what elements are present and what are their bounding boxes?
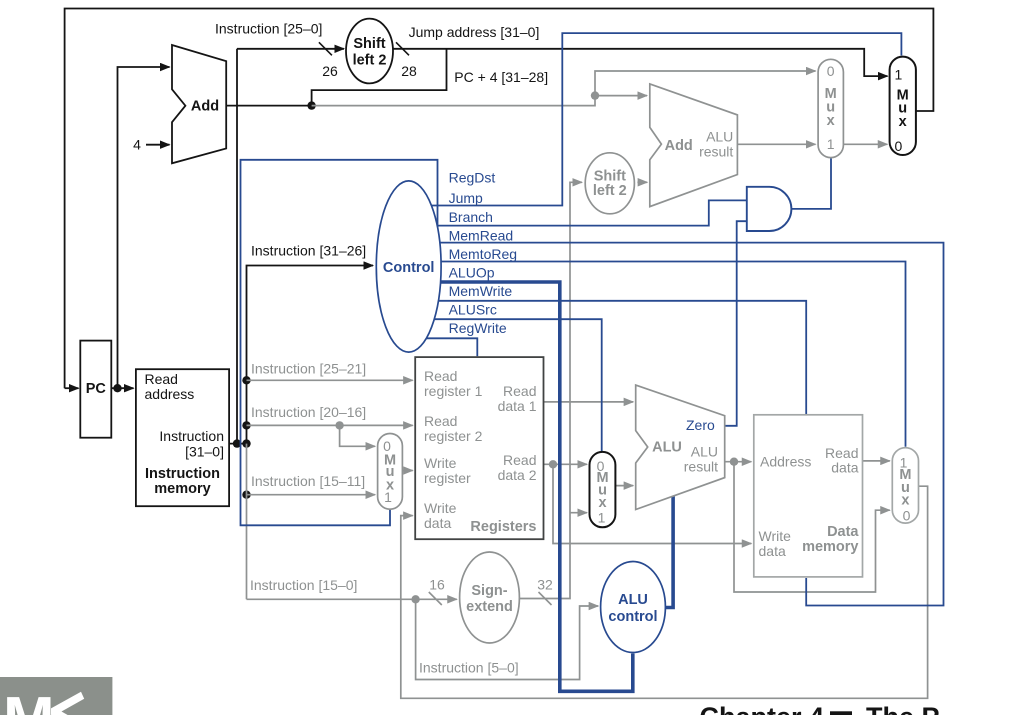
svg-text:Read: Read [424,413,457,429]
wire: Instruction [5-0] to ALU control [416,599,599,679]
svg-text:control: control [608,609,657,625]
wire: ALUSrc signal down to ALUSrc mux select [408,319,602,451]
svg-text:0: 0 [383,438,391,454]
ALU main trapezoid [636,385,725,509]
svg-text:0: 0 [903,508,911,524]
svg-text:M: M [3,685,55,715]
junction: PC+4 branch node [591,91,599,99]
wire: Instruction [15-11] into RegDst mux input 1 [247,494,376,496]
wire: RegDst mux output to Write register [402,470,412,472]
svg-text:16: 16 [429,577,445,593]
svg-text:left 2: left 2 [353,53,387,69]
wire: jump mux output feedback loop to PC input [65,9,934,389]
junction: instruction [20-16] tap [242,421,250,429]
caption em-dash visible sliver [830,711,852,715]
svg-text:Instruction [15–0]: Instruction [15–0] [250,577,357,593]
wire: Instruction [25-0] into Shift left 2 [237,48,344,50]
sign-extend oval [460,552,520,643]
control unit oval [376,181,441,352]
svg-text:0: 0 [827,63,835,79]
wire: data memory read data into memtoreg mux input 1 [863,460,890,462]
ALUSrc mux capsule [590,452,616,527]
svg-text:result: result [699,144,733,160]
wire: MemtoReg signal down to memtoreg mux select [408,262,906,447]
wire: PC value up to Add (PC+4) top input [118,67,170,388]
svg-text:Instruction [15–11]: Instruction [15–11] [251,473,365,489]
wire: Read data 2 branch to data memory write data [553,464,751,543]
slash: 32-bit width mark [539,592,552,605]
svg-text:Address: Address [760,454,811,470]
svg-text:data 1: data 1 [498,398,537,414]
svg-text:ALUOp: ALUOp [449,265,495,281]
adder Add (PC+4) [172,45,226,163]
svg-text:ALU: ALU [691,444,718,460]
slash: 28-bit width mark [396,42,409,55]
svg-text:Registers: Registers [470,519,536,535]
svg-text:1: 1 [827,136,835,152]
svg-text:1: 1 [384,489,392,505]
svg-text:data: data [759,543,786,559]
svg-text:Read: Read [503,383,536,399]
svg-text:Instruction [25–0]: Instruction [25–0] [215,21,322,37]
wire: RegWrite signal down to Registers write enable [408,338,477,356]
svg-text:MemtoReg: MemtoReg [449,246,517,262]
wire: Instruction [25-21] to Read register 1 [247,379,413,381]
svg-text:28: 28 [401,63,417,79]
wire: feedback arrow into PC [65,387,79,389]
svg-text:memory: memory [154,481,210,497]
slash: 26-bit width mark [319,42,332,55]
data memory box [754,415,863,577]
svg-text:RegWrite: RegWrite [449,320,507,336]
svg-text:Write: Write [759,528,792,544]
junction: ALU result node [730,458,738,466]
branch mux capsule [818,59,843,157]
svg-text:ALU: ALU [618,592,648,608]
junction: PC output node [113,384,121,392]
wire: Instruction [25-0] vertical from instruction bus [236,49,238,444]
svg-text:Shift: Shift [353,36,385,52]
svg-text:Data: Data [827,524,859,540]
wire: sign-extend branch to ALUSrc mux input 1 [570,512,587,514]
svg-text:Chapter 4 — The P: Chapter 4 — The P [700,702,940,715]
shift left 2 oval (branch) [585,153,634,214]
PC register box [80,341,111,438]
junction: PC+4 node [307,101,315,109]
svg-text:Instruction: Instruction [159,428,224,444]
registers box [415,357,543,539]
junction: instruction [15-11] tap [242,491,250,499]
svg-text:Write: Write [424,500,457,516]
svg-text:Write: Write [424,455,457,471]
wire: instruction memory output bus [229,443,246,445]
wire: Instruction [20-16] to Read register 2 [247,424,413,426]
svg-text:Instruction [20–16]: Instruction [20–16] [251,404,366,420]
wire: PC output to instruction memory read address [111,387,133,389]
svg-text:1: 1 [895,67,903,83]
svg-text:PC + 4 [31–28]: PC + 4 [31–28] [454,69,548,85]
wire: jump address [31-0] from shift left 2 to jump mux input 1 [393,49,888,76]
svg-text:data: data [831,460,858,476]
svg-text:Add: Add [191,99,219,115]
logo: MK publisher mark [0,677,112,715]
wire: ALU result to data memory address [725,461,752,463]
branch adder Add trapezoid [650,84,738,207]
wire: memtoreg mux output wrap-around to Registers write data [401,486,928,698]
svg-text:26: 26 [322,63,338,79]
shift left 2 oval (jump) [346,19,393,84]
svg-text:memory: memory [802,539,858,555]
wire: sign-extend output up to shift left 2 [519,182,582,598]
wire: Read data 1 into ALU top input [544,401,634,403]
svg-text:Zero: Zero [686,417,715,433]
wire: branch adder ALU result to branch mux input 1 [737,143,815,145]
wire: instruction field vertical (lower gray part) [246,444,248,600]
junction: instruction [25-21] tap [242,376,250,384]
junction: instruction bus node A [233,439,241,447]
wire: branch mux output to jump mux input 0 [843,143,887,145]
wire: ALU control output into ALU control port (thick) [663,497,673,608]
wire: Instruction [15-0] to sign-extend [247,598,457,600]
svg-text:MemWrite: MemWrite [449,283,513,299]
svg-text:Branch: Branch [449,209,493,225]
wire: MemWrite signal down to data memory write port [408,301,806,414]
svg-text:ALU: ALU [706,129,733,145]
svg-text:Sign-: Sign- [471,583,507,599]
svg-text:4: 4 [133,137,141,153]
svg-text:Read: Read [503,452,536,468]
svg-text:data 2: data 2 [498,467,537,483]
wire: MemRead signal wrap-around to data memory read port [408,243,944,606]
junction: instruction [15-0] node [411,595,419,603]
svg-text:ALU: ALU [652,440,682,456]
svg-text:register: register [424,470,471,486]
svg-text:Instruction [25–21]: Instruction [25–21] [251,361,366,377]
svg-text:MemRead: MemRead [449,228,514,244]
jump mux capsule [890,57,916,155]
svg-text:1: 1 [598,510,606,526]
slash: 16-bit width mark [429,592,442,605]
svg-text:result: result [684,459,718,475]
svg-text:address: address [145,386,195,402]
junction: instruction bus node B [242,439,250,447]
wire: Instruction [31-26] to Control input [247,266,374,444]
wire: PC+4 into branch adder top input [595,95,647,97]
wire: Instruction [20-16] branch into RegDst mux input 0 [340,425,376,446]
svg-text:32: 32 [537,577,553,593]
wire: constant 4 into Add bottom input [146,144,170,146]
svg-text:Jump: Jump [449,190,483,206]
wire: ALU result wrap-around to memtoreg mux input 0 [734,462,890,592]
svg-text:[31–0]: [31–0] [185,443,224,459]
svg-text:ALUSrc: ALUSrc [449,302,497,318]
wire: PC+4 [31-28] up to jump address bus [312,49,447,106]
svg-text:Read: Read [145,371,178,387]
junction: instruction [20-16] mux branch node [335,421,343,429]
svg-text:Read: Read [424,368,457,384]
RegDst mux capsule [378,434,403,510]
memtoreg mux capsule [892,448,918,523]
svg-text:x: x [827,113,835,129]
wire: Zero output from ALU to AND gate lower input [725,221,746,426]
svg-text:x: x [899,114,907,130]
svg-text:extend: extend [466,599,513,615]
svg-text:Instruction [31–26]: Instruction [31–26] [251,243,366,259]
wire: Read data 2 into ALUSrc mux input 0 [544,463,588,465]
svg-text:register 1: register 1 [424,383,483,399]
ALU control oval [601,562,666,653]
wire: Branch signal to AND gate top input [408,200,746,225]
wire: PC+4 gray bus to branch mux input 0 [312,71,816,106]
instruction memory box [136,369,229,506]
svg-text:Instruction [5–0]: Instruction [5–0] [419,660,519,676]
svg-text:0: 0 [895,138,903,154]
svg-text:Jump address [31–0]: Jump address [31–0] [409,24,540,40]
wire: RegDst signal wrap-around to RegDst mux select [241,160,438,526]
svg-text:Instruction: Instruction [145,466,220,482]
wire: AND gate output to branch mux select [787,159,832,209]
wire: Jump signal up and over to jump mux select [408,33,901,205]
junction: read data 2 node [549,460,557,468]
svg-text:data: data [424,515,451,531]
AND gate (branch) [747,187,792,231]
wire: ALUOp 2-bit signal to ALU control (thick) [408,282,633,691]
svg-text:PC: PC [86,381,107,397]
svg-text:register 2: register 2 [424,428,483,444]
wire: Add output (PC+4) black segment [226,105,311,107]
wire: ALUSrc mux output into ALU lower input [615,485,634,487]
svg-text:Add: Add [665,138,693,154]
svg-text:RegDst: RegDst [449,170,496,186]
svg-text:Control: Control [383,260,435,276]
svg-text:left 2: left 2 [593,183,627,199]
svg-text:x: x [901,493,909,509]
wire: shift left 2 output into branch adder lower input [637,181,647,183]
